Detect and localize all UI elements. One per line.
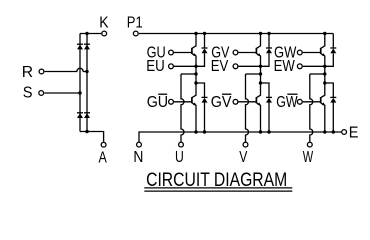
label U [175,149,184,166]
diode D4 (right leg lower) [84,113,90,118]
diode upper freewheel U (cathode to P rail) [196,34,208,67]
wire lower diode branch W [325,83,334,97]
diode lower freewheel W [330,97,336,132]
junction P rail / upper diode U [203,32,206,35]
label E [349,125,359,142]
svg-text:V: V [239,149,248,166]
wire emitter EW [303,65,325,67]
wire gate GW-bar [303,101,321,103]
svg-text:GW: GW [276,94,298,111]
diode lower freewheel V [266,97,272,132]
wire emitter EU [174,65,196,67]
label A [99,150,108,167]
wire lower diode branch V [261,83,270,97]
transistor Q3 (upper IGBT W) [321,46,326,57]
label GU-bar [147,94,168,111]
svg-text:R: R [22,64,33,81]
junction Q2 emitter / EV / diode anode [259,65,262,68]
transistor Q6 (lower IGBT W) [321,95,326,106]
svg-text:EW: EW [274,58,296,75]
svg-text:EV: EV [211,58,229,75]
label EV [211,58,229,75]
terminal GW [297,50,302,55]
terminal EU [169,64,174,69]
wire gate GV-bar [238,101,256,103]
wire gate GU [174,52,192,54]
label R [22,64,33,81]
terminal P1 [133,31,138,36]
wire midpoint branch to output U [181,73,196,75]
title CIRCUIT DIAGRAM [146,169,287,191]
diode D2 (left leg lower) [77,113,83,118]
wire gate GU-bar [174,101,192,103]
label GW-bar [276,94,298,111]
svg-text:W: W [303,149,314,166]
svg-text:N: N [133,149,143,166]
junction N-E rail / Q5 emitter [259,130,262,133]
junction midpoint V [259,72,262,75]
wire Q5 emitter to N-E rail [260,105,262,132]
wire bridge anode rail (to A) [80,132,104,142]
svg-text:S: S [23,84,33,101]
terminal GU-bar [169,99,174,104]
label N [133,149,143,166]
transistor Q1 (upper IGBT U) [192,46,197,57]
terminal GV [233,50,238,55]
transistor Q2 (upper IGBT V) [256,46,261,57]
wire Q3 emitter to midpoint [324,56,326,96]
junction midpoint U [194,72,197,75]
wire bridge right leg [86,34,88,132]
junction N-E rail / Q6 emitter [323,130,326,133]
diode upper freewheel W (cathode to P rail) [325,34,337,67]
junction P rail / Q1 collector [194,32,197,35]
wire lower diode branch U [196,83,205,97]
terminal EV [233,64,238,69]
junction bridge anode rail / right leg [85,130,88,133]
label V [239,149,248,166]
wire R input with crossover hop [45,68,87,71]
wire Q3 collector [324,34,326,46]
transistor Q5 (lower IGBT V) [256,95,261,106]
junction midpoint W [323,72,326,75]
label GW [274,45,297,62]
wire bridge left leg [79,34,81,132]
junction R to right leg [85,70,88,73]
svg-text:GU: GU [147,94,168,111]
wire Q6 emitter to N-E rail [324,105,326,132]
label EW [274,58,296,75]
wire midpoint branch to output W [310,73,325,75]
svg-text:E: E [349,125,359,142]
wire midpoint branch to output V [246,73,261,75]
junction N-E rail / lower diode V [267,130,270,133]
terminal V [243,142,248,147]
title double underline [144,188,292,191]
wire bridge cathode rail (to K) [80,33,101,35]
wire P rail [139,33,333,35]
wire S input [44,92,80,94]
junction P rail / Q2 collector [259,32,262,35]
junction lower branch W [323,81,326,84]
label GV [211,45,230,62]
diode upper freewheel V (cathode to P rail) [261,34,273,67]
terminal A [101,142,106,147]
wire Q2 collector [260,34,262,46]
label EU [146,58,165,75]
junction lower branch U [194,81,197,84]
junction Q1 emitter / EU / diode anode [194,65,197,68]
junction S to left leg [78,91,81,94]
svg-text:GV: GV [211,94,232,111]
label S [23,84,33,101]
wire emitter EV [238,65,260,67]
junction lower branch V [259,81,262,84]
diode lower freewheel U [202,97,208,132]
svg-text:K: K [99,15,109,32]
label K [99,15,109,32]
wire gate GV [238,52,256,54]
wire N-E rail [139,132,341,142]
terminal N [137,142,142,147]
wire Q4 emitter to N-E rail [195,105,197,132]
terminal GW-bar [297,99,302,104]
junction N-E rail / Q4 emitter [194,130,197,133]
wire Q2 emitter to midpoint [260,56,262,96]
wire output U with hops over gate wire and N-E rail [181,74,184,142]
wire Q1 emitter to midpoint [195,56,197,96]
junction Q3 emitter / EW / diode anode [323,65,326,68]
terminal U [179,142,184,147]
label W [303,149,314,166]
junction N-E rail / lower diode W [332,130,335,133]
terminal E [342,130,347,135]
terminal R [39,69,44,74]
wire output W with hops over gate wire and N-E rail [310,74,313,142]
svg-text:P1: P1 [127,15,143,32]
junction bridge cathode rail / right leg [85,32,88,35]
junction P rail / upper diode V [267,32,270,35]
terminal S [39,91,44,96]
svg-text:A: A [99,150,108,167]
svg-text:EU: EU [146,58,165,75]
svg-text:U: U [175,149,184,166]
junction P rail / Q3 collector [323,32,326,35]
terminal W [307,142,312,147]
terminal EW [297,64,302,69]
diode D3 (right leg upper) [84,44,90,49]
terminal K [102,31,107,36]
junction N-E rail / lower diode U [203,130,206,133]
terminal GV-bar [233,99,238,104]
transistor Q4 (lower IGBT U) [192,95,197,106]
terminal GU [169,50,174,55]
wire output V with hops over gate wire and N-E rail [246,74,249,142]
wire Q1 collector [195,34,197,46]
label P1 [127,15,143,32]
label GU [147,45,166,62]
diode D1 (left leg upper) [77,44,83,49]
wire gate GW [303,52,321,54]
label GV-bar [211,94,232,111]
